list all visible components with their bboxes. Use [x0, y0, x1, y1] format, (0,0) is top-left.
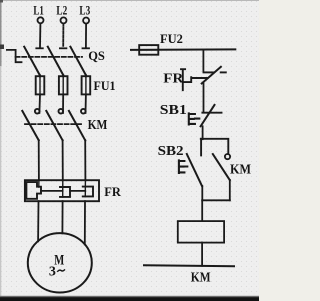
KM main contact pole 2 blade: [46, 111, 62, 140]
branch join line: [202, 199, 230, 201]
svg-text:QS: QS: [88, 49, 105, 63]
wire KM aux to join line: [229, 180, 231, 200]
svg-text:L3: L3: [79, 3, 90, 18]
wire FU1 pole1 to KM contact: [38, 94, 41, 113]
KM main contact pole 1 blade: [22, 111, 38, 140]
fuse FU1 pole 3 body: [82, 76, 91, 94]
KM main contact pole 3 blade: [69, 111, 85, 140]
svg-text:FR: FR: [163, 71, 183, 86]
contactor KM main contact pole 1 fixed terminal circle: [35, 109, 40, 114]
FR NC contact blade: [202, 67, 221, 84]
disconnect switch QS pole 2 fixed contact tick: [60, 47, 67, 49]
wire L3 to QS: [85, 24, 87, 48]
wire FR contact to SB1: [203, 84, 205, 113]
wire L2 to QS: [62, 24, 64, 48]
fuse FU1 pole 3 link wire: [85, 76, 87, 94]
scan border top edge: [0, 0, 259, 1]
FR heater element 2 to 3 connector: [70, 190, 85, 192]
wire FR box to motor U: [37, 201, 39, 241]
wire KM pole1 to FR box: [38, 140, 40, 180]
SB2 NO pushbutton blade: [187, 154, 202, 186]
fuse FU1 pole 1 link wire: [39, 76, 41, 94]
wire top line to FR contact: [202, 50, 204, 72]
contactor coil KM: [178, 221, 224, 243]
wire QS pole3 to FU1: [85, 75, 87, 77]
scan border left edge: [0, 0, 1, 301]
control circuit bottom supply line: [144, 265, 234, 266]
contactor KM main contact pole 3 fixed terminal circle: [81, 109, 86, 114]
KM auxiliary contact fixed terminal circle: [225, 154, 230, 159]
wire KM coil to bottom line: [201, 243, 203, 266]
svg-text:L2: L2: [56, 3, 67, 18]
node L3 terminal circle: [83, 18, 89, 24]
scan border bottom black bar: [0, 297, 259, 301]
FR box pole 1 wire through: [38, 180, 40, 187]
motor M circle: [28, 233, 92, 292]
FR heater element 2: [60, 187, 70, 197]
wire FU1 pole3 to KM contact: [85, 94, 87, 113]
SB1 NC pushbutton seat bar: [202, 112, 221, 114]
QS pole 3 blade: [70, 47, 85, 75]
fuse FU2 body: [139, 45, 158, 55]
FR NC contact seat bar: [204, 71, 214, 73]
fuse FU1 pole 2 link wire: [62, 76, 64, 94]
FR NC contact top tick: [221, 71, 226, 73]
SB2 pushbutton actuator E: [179, 160, 187, 173]
wire SB2 to join line: [201, 186, 203, 200]
disconnect switch QS pole 1 fixed contact tick: [36, 47, 43, 49]
node L2 terminal circle: [61, 17, 67, 23]
motor label tilde: [58, 270, 65, 271]
svg-text:FU1: FU1: [94, 78, 116, 93]
SB1 NC pushbutton blade: [201, 105, 215, 126]
wire SB1 to branch node: [202, 126, 204, 139]
FR heater element 1 to 2 connector: [41, 190, 63, 192]
svg-text:3: 3: [49, 265, 56, 280]
wire join to KM coil: [201, 200, 203, 221]
thermal relay FR box outline: [25, 180, 99, 201]
KM auxiliary contact blade: [213, 154, 230, 180]
FR trip actuator symbol: [181, 69, 208, 90]
fuse FU1 pole 1 body: [36, 76, 45, 94]
svg-text:FU2: FU2: [160, 32, 183, 46]
QS pole 1 blade: [24, 47, 40, 75]
svg-text:L1: L1: [33, 2, 43, 17]
FR box pole 3 wire through: [84, 180, 86, 196]
wire FU1 pole2 to KM contact: [62, 94, 64, 113]
wire FR box to motor W: [84, 201, 86, 244]
wire KM pole2 to FR box: [62, 140, 64, 180]
wire L1 to QS: [39, 24, 41, 48]
svg-text:KM: KM: [191, 271, 211, 286]
fuse FU2 link wire: [139, 49, 158, 51]
wire KM pole3 to FR box: [84, 140, 86, 180]
QS mechanical linkage dashed: [16, 56, 82, 58]
branch top line to KM aux: [201, 139, 229, 154]
svg-text:KM: KM: [230, 162, 251, 177]
wire branch to SB2: [200, 139, 202, 156]
control circuit top supply line: [131, 48, 235, 51]
KM main contacts mechanical linkage dashed: [25, 123, 81, 125]
SB1 pushbutton actuator E: [189, 113, 200, 124]
node L1 terminal circle: [38, 17, 44, 23]
wire FR box to motor V: [61, 201, 63, 233]
FR heater element 3: [83, 187, 93, 197]
disconnect switch QS pole 3 fixed contact tick: [83, 47, 90, 49]
svg-text:KM: KM: [88, 117, 108, 132]
wire QS pole1 to FU1: [39, 75, 41, 77]
contactor KM main contact pole 2 fixed terminal circle: [59, 109, 64, 114]
svg-text:FR: FR: [104, 185, 122, 199]
QS operating handle: [7, 50, 22, 62]
QS pole 2 blade: [48, 47, 63, 75]
FR box pole 2 wire through: [62, 180, 64, 197]
svg-text:SB2: SB2: [158, 144, 184, 159]
fuse FU1 pole 2 body: [59, 76, 68, 94]
wire QS pole2 to FU1: [62, 75, 64, 77]
FR heater element 1: [26, 182, 41, 199]
svg-text:SB1: SB1: [160, 103, 187, 118]
